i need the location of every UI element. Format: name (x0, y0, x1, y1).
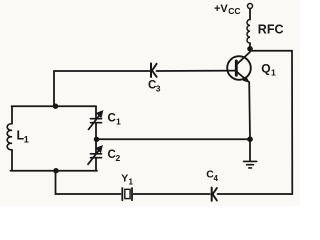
svg-text:Y: Y (121, 173, 128, 185)
capacitor C1 (variable) (89, 111, 103, 130)
wire tank left edge lower (11, 150, 13, 171)
wire choke to collector (249, 43, 251, 50)
wire tank left edge upper (11, 106, 13, 123)
svg-text:1: 1 (24, 135, 29, 145)
label +Vcc (214, 3, 241, 16)
transistor Q1 (227, 52, 251, 82)
ground (244, 161, 257, 168)
wire right edge (291, 51, 293, 194)
label Y1 (121, 173, 133, 187)
wire emitter (248, 82, 251, 139)
label C2 (108, 149, 121, 163)
wire C branch middle (95, 124, 97, 139)
svg-text:Q: Q (261, 61, 270, 75)
wire tank bottom edge (11, 170, 98, 172)
wire Vcc feed (249, 9, 251, 20)
label C4 (206, 169, 218, 183)
svg-text:2: 2 (116, 153, 121, 163)
inductor L1 (7, 124, 12, 150)
wire C branch bottom (95, 159, 97, 171)
label C3 (148, 80, 161, 94)
svg-text:CC: CC (228, 6, 240, 16)
svg-text:+V: +V (214, 3, 228, 15)
wire bottom middle segment (134, 193, 210, 195)
wire collector top (250, 50, 292, 52)
terminal +Vcc (248, 4, 253, 9)
svg-text:RFC: RFC (258, 22, 284, 36)
svg-text:1: 1 (129, 177, 134, 186)
crystal Y1 (122, 188, 132, 200)
svg-text:3: 3 (156, 83, 161, 93)
node tank bottom junction (53, 168, 58, 173)
node tank top junction (53, 104, 58, 109)
wire bottom feed (55, 171, 57, 194)
wire C branch top (95, 106, 97, 117)
wire bottom left segment (56, 193, 121, 195)
wire emitter to tank (97, 138, 250, 140)
capacitor C3 (151, 63, 157, 77)
label C1 (108, 113, 122, 127)
wire bottom right segment (218, 193, 293, 195)
capacitor C2 (variable) (88, 146, 102, 165)
wire base right segment (157, 70, 236, 72)
node emitter junction (247, 136, 253, 142)
svg-text:1: 1 (116, 117, 121, 127)
inductor RFC (247, 20, 250, 44)
label RFC (258, 22, 284, 36)
node collector junction (247, 46, 253, 52)
label L1 (17, 129, 29, 145)
capacitor C4 (212, 188, 217, 201)
label Q1 (261, 61, 276, 77)
wire C branch lower (95, 140, 97, 153)
wire tank top edge (12, 105, 97, 107)
wire base left segment (54, 71, 150, 106)
svg-text:1: 1 (271, 67, 276, 77)
svg-text:4: 4 (214, 174, 219, 183)
svg-text:C: C (108, 113, 116, 125)
wire ground stem (249, 140, 251, 160)
node C1-C2 junction (94, 137, 99, 142)
